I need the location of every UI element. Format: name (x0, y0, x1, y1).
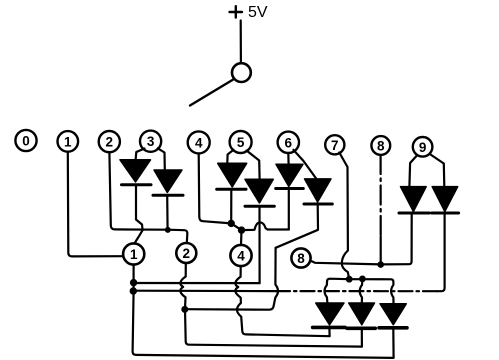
key contact 4 (188, 131, 210, 153)
key contact 3 (140, 131, 161, 152)
svg-text:8: 8 (377, 139, 385, 154)
diode D9 key7 to out4 (313, 303, 346, 327)
diode D1 key3 to out1 (120, 160, 151, 185)
output node 2 (176, 243, 196, 263)
svg-text:6: 6 (285, 135, 293, 150)
key contact 6 (278, 132, 299, 153)
wire junction to D5 cathode with hop over D4 line (242, 222, 289, 230)
junction dot feed row right (359, 276, 366, 283)
wire diode row feed I (325, 279, 350, 303)
key contact 2 (99, 131, 120, 152)
wire D2 cathode (166, 196, 169, 230)
switch S1 lever (190, 80, 233, 106)
svg-text:1: 1 (64, 134, 72, 149)
svg-text:5: 5 (237, 135, 245, 150)
wire junction to node4 (231, 223, 241, 245)
wire node1 down to bus1 (133, 265, 394, 358)
wire key8 dash-dot down (380, 155, 382, 238)
diode D3 key5 to out4 (217, 163, 247, 189)
key contact 7 (325, 135, 344, 154)
wire D8 anode from key9 (431, 155, 445, 187)
key contact 0 (15, 130, 36, 151)
svg-text:1: 1 (130, 247, 138, 262)
svg-text:2: 2 (183, 246, 191, 261)
output node 8 (291, 248, 310, 267)
key contact 5 (230, 131, 252, 153)
wire node2 lower to bus2 (185, 309, 362, 347)
svg-text:7: 7 (331, 138, 339, 153)
switch S1 contact circle (232, 63, 251, 82)
wire node4 down with hops to bus4 (235, 266, 329, 336)
wire +5V stem (240, 21, 242, 64)
wire key1 to node1 (68, 152, 123, 257)
wire key7 down to diode row junction (339, 153, 349, 280)
diode D11 key7 to out1 (379, 304, 407, 328)
wire D6 anode from key6 (293, 150, 316, 179)
wire diode row feed J (360, 279, 363, 303)
wire D1 anode from key3 (136, 149, 145, 160)
junction dot node2 lower (181, 306, 188, 313)
diode D7 key9 to out8 (399, 187, 429, 213)
output node 1 (123, 243, 144, 264)
diode D5 key6 to out4 (276, 164, 304, 188)
wire D4 cathode to line1 (258, 207, 260, 284)
wire key8 dash-dot tail (380, 237, 382, 265)
wire node8 across to D7 cathode (311, 214, 412, 265)
diode D4 key5 to out1 (245, 179, 274, 206)
wire D3 cathode (230, 190, 232, 224)
wire node2 down with hops (180, 263, 185, 309)
junction dot node8 net (377, 261, 384, 268)
wire D10 cathode to bus2 (361, 329, 363, 347)
svg-text:5V: 5V (248, 4, 268, 21)
junction dot line1 node1 (130, 279, 137, 286)
key contact 1 (58, 131, 79, 152)
svg-text:9: 9 (419, 140, 427, 155)
wire key4 to junction (199, 154, 232, 224)
diode D6 key6 to out2 (304, 179, 332, 204)
svg-text:0: 0 (22, 134, 30, 149)
wire D2 anode from key3 (158, 148, 165, 170)
wire line2 dash-dot section (276, 290, 437, 292)
key contact 8 (371, 136, 390, 155)
junction dot line2 node1 (130, 287, 137, 294)
wire D7 anode from key9 (409, 156, 416, 187)
wire line1 D4 cathode to node1 (134, 282, 260, 284)
wire D6 cathode down to node2 branch (185, 205, 318, 310)
diode D10 key7 to out2 (347, 303, 375, 328)
wire D9 cathode to bus4 (328, 328, 330, 336)
junction dot D2-node2 (165, 227, 171, 233)
diode D2 key3 to out2 (153, 170, 183, 195)
wire line2 solid section to node1 (134, 290, 276, 293)
wire D4 anode from key5 (247, 151, 260, 180)
key contact 9 (413, 137, 433, 157)
svg-text:4: 4 (237, 249, 245, 264)
wire D8 cathode down (437, 214, 445, 292)
svg-text:3: 3 (147, 134, 155, 149)
wire D3 anode from key5 (227, 150, 233, 164)
junction dot A4 (228, 220, 235, 227)
svg-text:8: 8 (297, 251, 305, 266)
wire key2 down and across to node2 (109, 152, 187, 243)
+5V supply label (230, 4, 268, 21)
wire D1 cathode to node1 (134, 185, 142, 244)
output node 4 (230, 245, 251, 266)
svg-text:2: 2 (106, 135, 114, 150)
junction dot B4 (238, 226, 245, 233)
wire D5 cathode (288, 190, 290, 230)
junction dot feed row left (346, 276, 353, 283)
wire diode row feed K (349, 279, 393, 304)
wire D11 cathode to bus1 (392, 328, 395, 358)
diode D8 key9 to out1 (432, 187, 459, 213)
svg-text:4: 4 (195, 135, 203, 150)
wire D5 anode from key6 (287, 153, 290, 164)
